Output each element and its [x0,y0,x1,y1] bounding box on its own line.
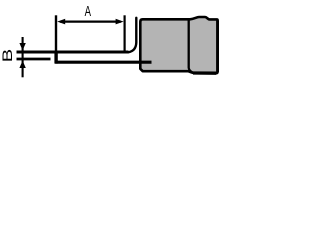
sleeve bell bottom edge [193,71,216,74]
pin left edge (tip) [54,51,57,64]
A left extension line [55,15,57,50]
pin top edge + B top extension line [17,51,129,54]
sleeve seam (bell mouth) line [189,20,194,73]
B dimension line [22,37,24,77]
A dimension line [60,21,121,23]
B bottom arrowhead (pointing up) [19,61,25,68]
B bottom extension line [17,58,51,61]
pin bottom edge [55,61,151,64]
A right extension line [123,15,125,51]
A left arrowhead [57,19,65,25]
insulation sleeve body (gray funnel) [140,17,217,73]
sleeve bell right edge [216,21,219,73]
metal flare (funnel) outline [128,18,136,53]
svg-text:A: A [85,3,92,20]
A right arrowhead [116,19,124,25]
B top arrowhead (pointing down) [19,43,25,50]
svg-text:B: B [0,49,15,63]
